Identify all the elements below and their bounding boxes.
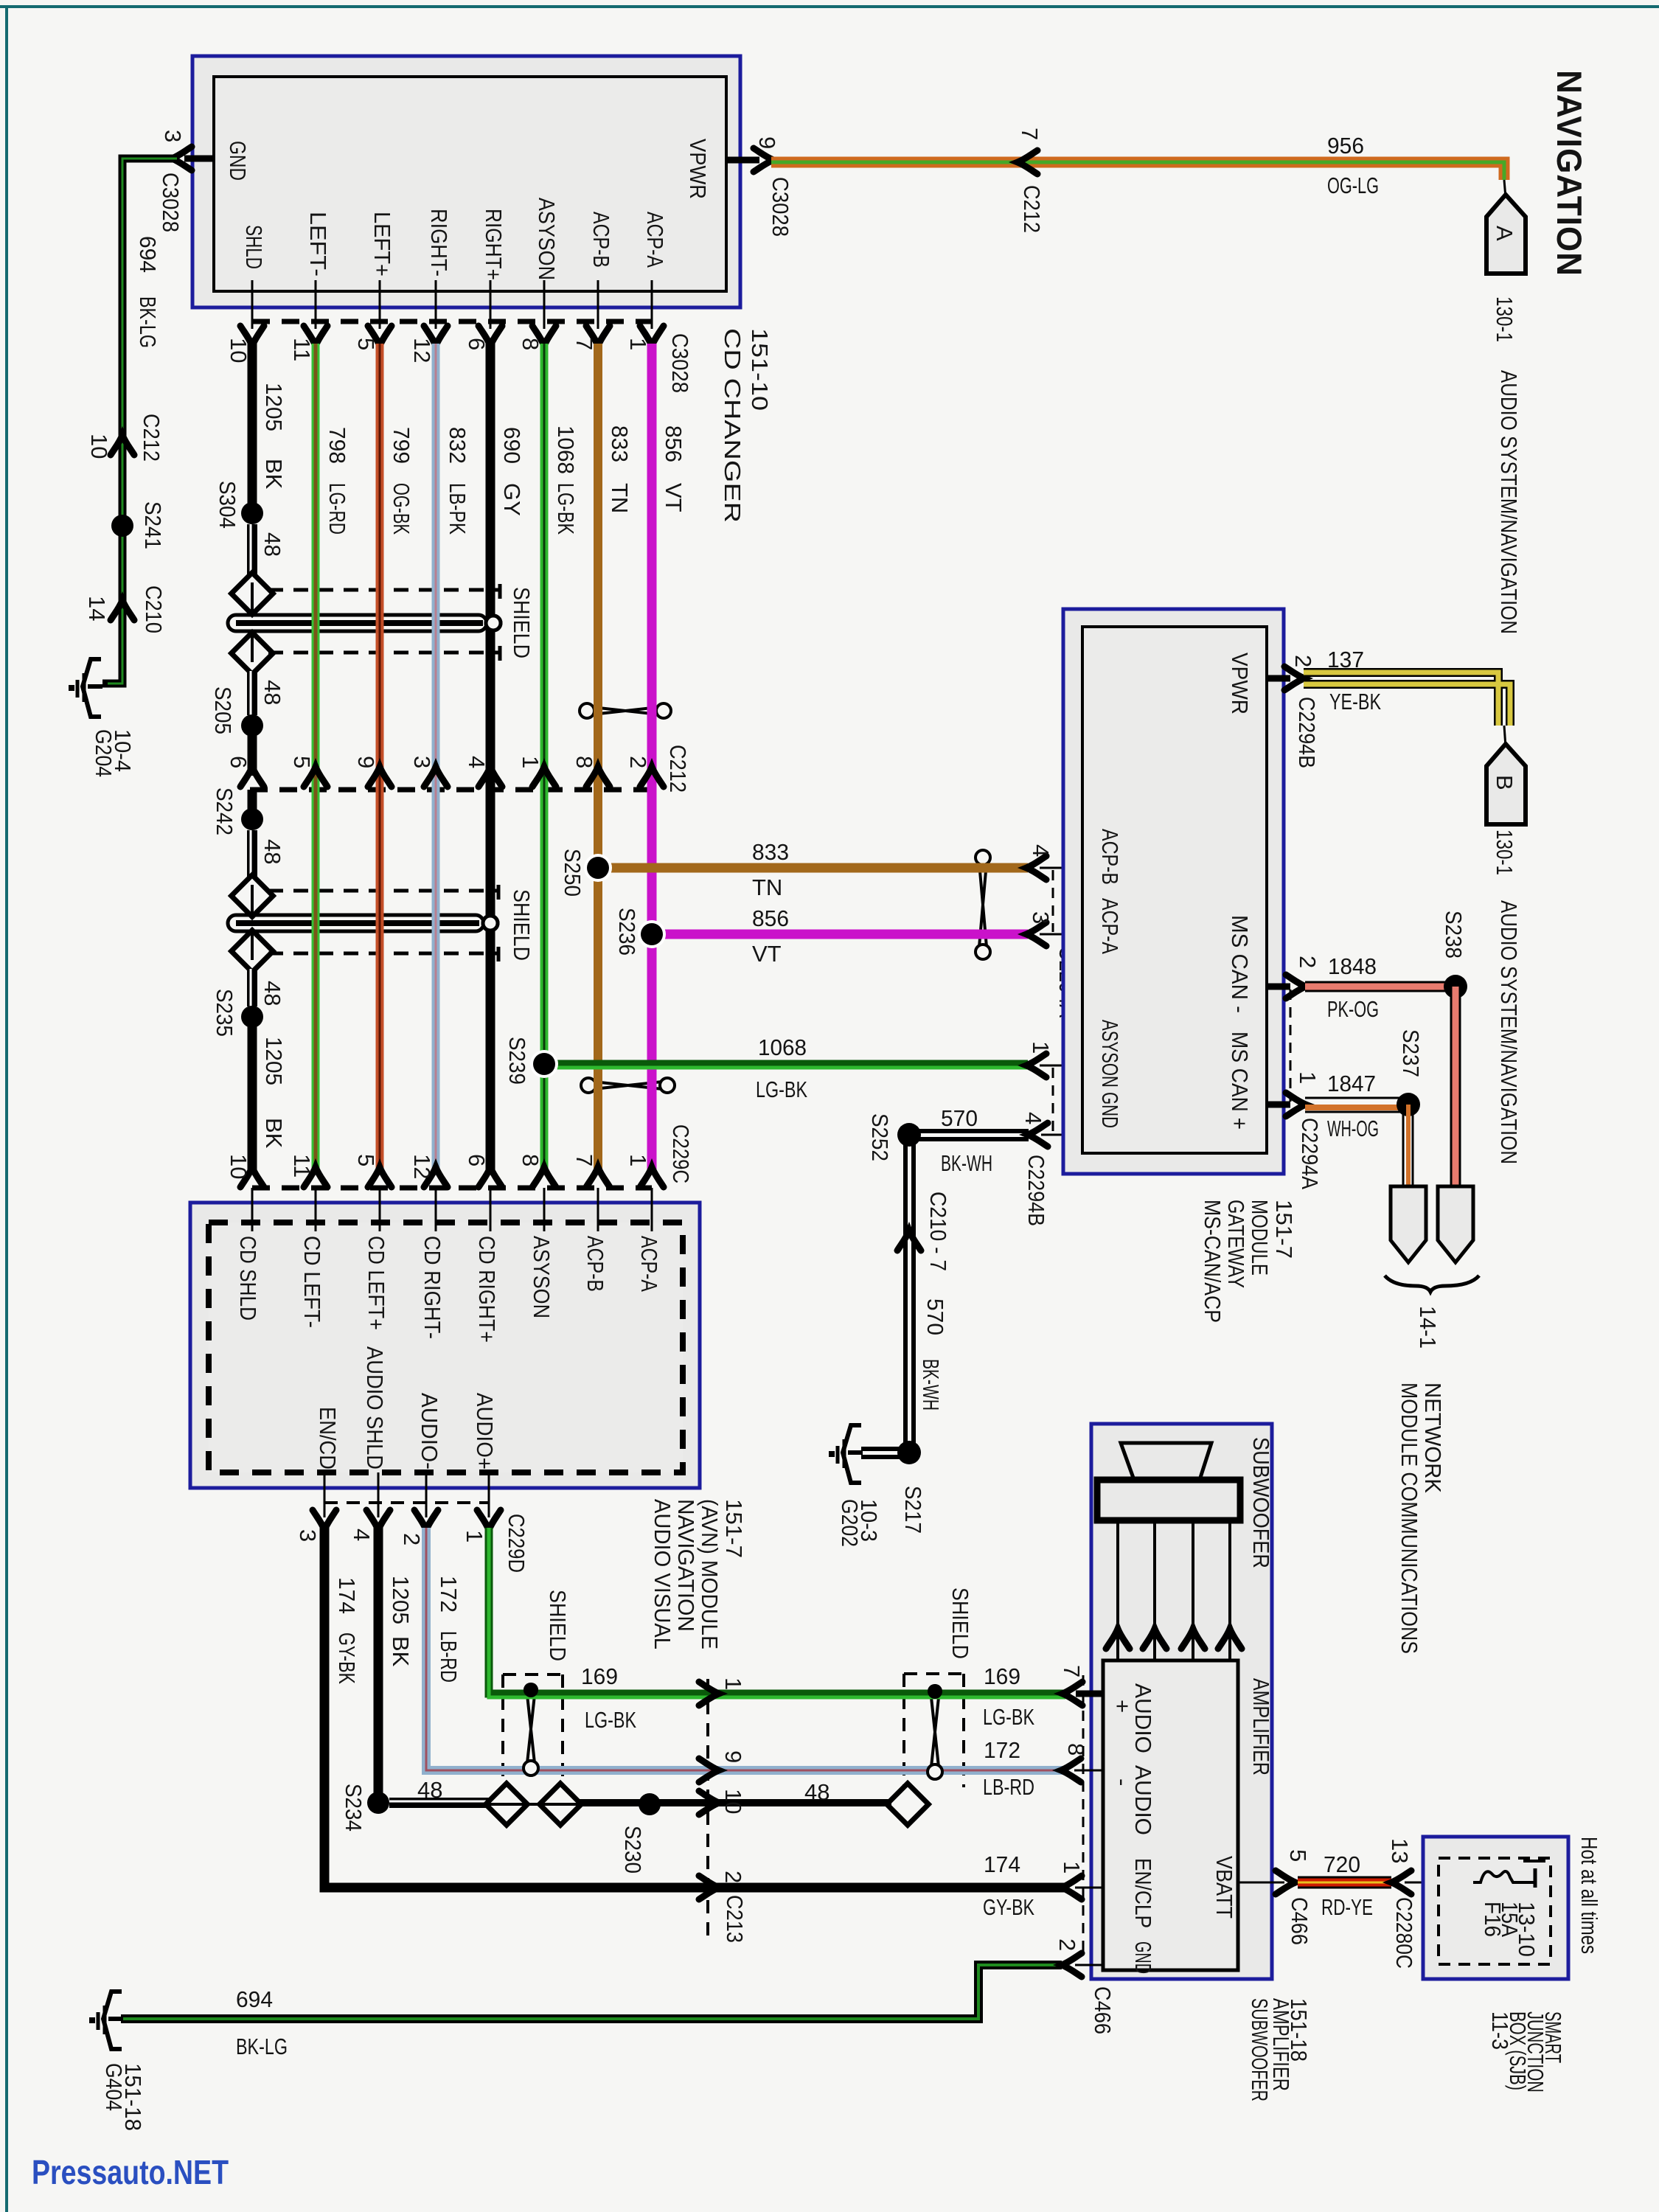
svg-text:1205: 1205 — [261, 383, 287, 431]
svg-text:LG-BK: LG-BK — [585, 1707, 636, 1733]
C3028 arrows row — [240, 326, 264, 346]
C213 arrow on 169 — [699, 1682, 719, 1705]
svg-text:AUDIO+: AUDIO+ — [472, 1393, 498, 1470]
wire 137 YE-BK to connector B — [1304, 672, 1498, 726]
svg-text:1: 1 — [625, 1154, 651, 1166]
wire 1848 PK-OG to S238 — [1305, 981, 1455, 992]
svg-text:AUDIO SHLD: AUDIO SHLD — [362, 1346, 388, 1470]
connector A symbol — [1486, 195, 1526, 274]
connector B lead line — [1504, 726, 1506, 747]
svg-text:MS CAN +: MS CAN + — [1227, 1032, 1253, 1130]
svg-text:13: 13 — [1387, 1838, 1413, 1863]
svg-text:169: 169 — [581, 1663, 618, 1689]
svg-text:172: 172 — [984, 1737, 1020, 1763]
shield L capsule top dot — [524, 1683, 538, 1697]
AVN module dashed box — [209, 1222, 683, 1472]
svg-text:NAVIGATION: NAVIGATION — [673, 1499, 699, 1632]
svg-text:ASYSON: ASYSON — [534, 198, 560, 280]
wire 956 OG-LG to connector A — [771, 162, 1504, 180]
svg-text:CD SHLD: CD SHLD — [235, 1236, 261, 1321]
wire 174 GY-BK EN/CD to amplifier — [324, 1528, 1065, 1888]
amp AUDIO+ stub — [1076, 1691, 1103, 1697]
svg-text:BK-WH: BK-WH — [918, 1359, 944, 1411]
svg-text:11: 11 — [289, 338, 315, 361]
svg-text:7: 7 — [1059, 1665, 1085, 1677]
ACP-B stub into gateway — [1040, 867, 1082, 869]
svg-text:151-18: 151-18 — [1286, 1998, 1312, 2062]
svg-text:TN: TN — [752, 874, 782, 900]
svg-text:CD LEFT+: CD LEFT+ — [364, 1236, 389, 1330]
ACP-A stub into gateway — [1040, 933, 1082, 936]
svg-text:48: 48 — [417, 1777, 442, 1803]
svg-text:LB-RD: LB-RD — [983, 1774, 1034, 1800]
svg-text:798: 798 — [324, 427, 350, 464]
wire 690 GY full run — [486, 344, 495, 1174]
svg-text:832: 832 — [445, 427, 470, 464]
svg-text:LG-RD: LG-RD — [324, 483, 350, 535]
drain wire 48 diamond to S230 — [577, 1799, 650, 1806]
svg-text:151-7: 151-7 — [721, 1499, 747, 1558]
svg-text:690: 690 — [499, 427, 525, 464]
shield R capsule top dot — [928, 1684, 942, 1699]
subwoofer speaker magnet — [1097, 1480, 1240, 1520]
svg-text:LEFT+: LEFT+ — [369, 212, 395, 276]
svg-text:MS CAN -: MS CAN - — [1227, 915, 1253, 1013]
svg-text:MS-CAN/ACP: MS-CAN/ACP — [1200, 1200, 1225, 1323]
svg-text:C212: C212 — [139, 414, 164, 462]
svg-text:1847: 1847 — [1327, 1071, 1376, 1096]
svg-text:SHIELD: SHIELD — [509, 889, 535, 961]
svg-text:7: 7 — [1017, 128, 1043, 140]
GND pin arrow C3028-3 — [172, 147, 192, 170]
svg-text:EN/CD: EN/CD — [315, 1407, 341, 1470]
wire 1205 BK segment C3028 to S304 — [248, 344, 257, 513]
svg-text:12: 12 — [409, 1154, 435, 1179]
svg-text:ASYSON: ASYSON — [529, 1236, 554, 1318]
svg-text:GATEWAY: GATEWAY — [1223, 1200, 1249, 1288]
svg-text:S252: S252 — [867, 1113, 893, 1161]
svg-text:S241: S241 — [140, 501, 166, 549]
svg-text:130-1: 130-1 — [1492, 829, 1517, 875]
subwoofer amplifier outer box — [1091, 1424, 1272, 1979]
svg-text:SHIELD: SHIELD — [509, 587, 535, 658]
amp VBATT stub — [1238, 1882, 1284, 1884]
splice S236 — [638, 920, 666, 948]
svg-text:3: 3 — [409, 756, 435, 768]
wire 1068 LG-BK full run — [540, 344, 549, 1174]
connector C212 dashed line — [250, 787, 662, 793]
speaker lead 1 — [1116, 1520, 1119, 1660]
svg-text:13-10: 13-10 — [1514, 1902, 1540, 1957]
VPWR pin arrow C3028-9 — [754, 148, 773, 172]
svg-text:RD-YE: RD-YE — [1321, 1894, 1373, 1920]
svg-text:CD RIGHT-: CD RIGHT- — [420, 1236, 445, 1339]
splice S235 — [241, 1006, 263, 1028]
svg-text:12: 12 — [409, 338, 435, 363]
svg-text:S217: S217 — [900, 1486, 926, 1534]
shield 1 drain capsule — [228, 615, 501, 631]
svg-text:8: 8 — [518, 1154, 543, 1166]
shield R diamond — [887, 1784, 929, 1826]
drain wire 48 shield 2 to S235 — [247, 969, 257, 1006]
connector C3028 dashed line — [252, 319, 652, 324]
svg-text:1068: 1068 — [553, 425, 579, 474]
svg-text:S239: S239 — [504, 1037, 530, 1085]
svg-text:48: 48 — [260, 839, 285, 864]
wire 1847 WH-OG to S237 — [1305, 1097, 1408, 1099]
svg-text:TN: TN — [607, 483, 633, 513]
svg-text:48: 48 — [804, 1779, 829, 1805]
splice S241 — [111, 515, 133, 537]
wire 1848 PK-OG vertical to network pin — [1450, 987, 1461, 1186]
ground G204 symbol — [69, 659, 102, 717]
subwoofer speaker cone — [1121, 1443, 1211, 1480]
AVN bottom pin stubs — [324, 1472, 489, 1517]
C213 arrow on drain 48 — [699, 1791, 719, 1815]
drain wire 48 S234 to diamond — [389, 1798, 490, 1808]
MS CAN - pin stub — [1267, 984, 1290, 990]
wire 172 LB-RD AUDIO- to amplifier — [426, 1528, 1064, 1770]
speaker lead 4 — [1228, 1520, 1231, 1660]
svg-text:CD RIGHT+: CD RIGHT+ — [474, 1236, 500, 1343]
connector C212 pin 10 arrow on ground wire — [111, 435, 134, 455]
svg-text:VT: VT — [752, 941, 782, 967]
gateway module inner box — [1082, 627, 1267, 1153]
wire 856 VT full run — [647, 344, 657, 1174]
wire BK segment C212 to S242 — [248, 790, 257, 819]
svg-text:OG-BK: OG-BK — [389, 483, 414, 535]
amp EN/CLP stub — [1075, 1887, 1103, 1889]
svg-text:3: 3 — [295, 1529, 321, 1542]
svg-text:GY: GY — [499, 483, 525, 516]
C229D dashed line — [324, 1501, 489, 1504]
svg-text:BK: BK — [261, 1118, 287, 1149]
svg-text:BK: BK — [388, 1636, 414, 1667]
svg-text:2: 2 — [1054, 1938, 1080, 1951]
svg-text:11-3: 11-3 — [1487, 2011, 1513, 2050]
svg-text:C466: C466 — [1287, 1897, 1312, 1945]
ground G202 symbol — [829, 1425, 863, 1483]
svg-text:PK-OG: PK-OG — [1327, 996, 1379, 1022]
svg-text:5: 5 — [353, 338, 379, 350]
amp GND stub — [1075, 1964, 1103, 1966]
gateway module outer box — [1063, 609, 1284, 1174]
speaker lead arrows — [1106, 1629, 1130, 1649]
brace under network pins — [1385, 1276, 1479, 1292]
svg-text:2: 2 — [720, 1871, 746, 1883]
svg-text:2: 2 — [399, 1533, 425, 1545]
svg-text:10: 10 — [86, 434, 112, 459]
svg-text:9: 9 — [720, 1750, 746, 1763]
wire 798 LG-RD full run — [312, 344, 320, 1174]
svg-text:GND: GND — [1130, 1941, 1156, 1974]
network pin symbol right — [1438, 1186, 1473, 1262]
fuse F16 element — [1473, 1871, 1535, 1882]
C213 arrow on 174 — [699, 1876, 719, 1899]
svg-text:799: 799 — [389, 427, 414, 464]
MS CAN + pin stub — [1267, 1102, 1290, 1108]
svg-text:AUDIO VISUAL: AUDIO VISUAL — [650, 1499, 675, 1649]
connector B symbol — [1486, 744, 1526, 824]
svg-text:S236: S236 — [614, 908, 640, 956]
ACP-A arrow at C2294A — [1026, 922, 1046, 946]
svg-text:1: 1 — [720, 1677, 746, 1690]
scan border top — [0, 5, 1659, 8]
splice S237 — [1397, 1093, 1420, 1116]
svg-text:7: 7 — [571, 1154, 597, 1166]
svg-text:S304: S304 — [215, 481, 240, 529]
svg-text:C210 - 7: C210 - 7 — [925, 1192, 951, 1271]
svg-text:EN/CLP: EN/CLP — [1130, 1858, 1156, 1928]
C213 arrow on 172 — [699, 1759, 719, 1782]
shield L dashed outline — [503, 1674, 563, 1788]
ACP-B arrow at C2294A — [1026, 856, 1046, 880]
svg-text:C213: C213 — [722, 1895, 748, 1943]
svg-text:SHLD: SHLD — [241, 225, 267, 269]
svg-text:C3028: C3028 — [768, 177, 793, 237]
ground G404 symbol — [89, 1992, 123, 2049]
svg-text:C2294B: C2294B — [1294, 697, 1320, 768]
svg-text:151-7: 151-7 — [1271, 1200, 1297, 1259]
svg-text:A: A — [1492, 226, 1517, 241]
connector C210 pin 7 arrow — [897, 1231, 921, 1251]
svg-text:VBATT: VBATT — [1211, 1856, 1237, 1919]
splice S252 — [897, 1123, 921, 1147]
svg-text:720: 720 — [1324, 1851, 1360, 1877]
svg-text:4: 4 — [1020, 1112, 1046, 1124]
svg-text:AUDIO SYSTEM/NAVIGATION: AUDIO SYSTEM/NAVIGATION — [1496, 900, 1522, 1164]
svg-text:833: 833 — [752, 839, 789, 865]
amp AUDIO+ arrow — [1062, 1682, 1082, 1705]
svg-text:S238: S238 — [1441, 911, 1467, 959]
splice S234 — [367, 1792, 389, 1814]
connector A lead line — [1504, 180, 1506, 198]
svg-text:174: 174 — [984, 1851, 1020, 1877]
shield 2 capsule end circle — [483, 916, 498, 931]
C229D arrows row — [313, 1510, 336, 1530]
svg-text:1205: 1205 — [388, 1576, 414, 1624]
svg-text:1: 1 — [518, 756, 543, 768]
splice S304 — [241, 502, 263, 524]
svg-text:1: 1 — [462, 1530, 487, 1543]
smart junction box outer — [1423, 1837, 1568, 1979]
drain wire 48 S230 through C213 to shield R — [650, 1799, 891, 1806]
svg-text:AUDIO: AUDIO — [1130, 1765, 1156, 1835]
AVN module outer box — [190, 1203, 700, 1488]
wire 1205 BK AUDIO SHLD to S234 — [374, 1528, 383, 1803]
svg-text:ACP-A: ACP-A — [636, 1236, 662, 1292]
svg-text:Hot at all times: Hot at all times — [1576, 1837, 1602, 1954]
svg-text:SHIELD: SHIELD — [545, 1590, 571, 1661]
twisted pair symbol TN-VT above C212 — [580, 703, 671, 718]
twisted pair symbol on ACP pair at gateway — [975, 850, 990, 959]
svg-text:C229D: C229D — [504, 1514, 529, 1573]
shield 2 dashed outline — [268, 885, 498, 961]
svg-text:(AVN) MODULE: (AVN) MODULE — [697, 1499, 723, 1649]
svg-text:C212: C212 — [1019, 185, 1045, 233]
svg-text:48: 48 — [260, 532, 285, 557]
GND stub into gateway — [1041, 1134, 1082, 1136]
svg-text:RIGHT+: RIGHT+ — [481, 209, 507, 280]
amp connector dashed boundary — [1082, 1675, 1085, 1958]
svg-text:BK: BK — [261, 459, 287, 490]
C229C arrows row — [240, 1167, 264, 1187]
svg-text:C3028: C3028 — [667, 333, 693, 393]
svg-text:5: 5 — [353, 1154, 379, 1166]
wire BK segment S205 to C212 — [248, 726, 257, 776]
C212 arrows row — [240, 767, 264, 787]
svg-text:BK-WH: BK-WH — [941, 1150, 992, 1176]
svg-text:570: 570 — [922, 1298, 948, 1335]
SJB lead wire — [1405, 1882, 1473, 1884]
svg-text:856: 856 — [752, 905, 789, 931]
svg-text:14-1: 14-1 — [1415, 1306, 1441, 1349]
svg-text:VT: VT — [661, 483, 686, 512]
svg-text:856: 856 — [661, 425, 686, 462]
svg-text:S234: S234 — [341, 1784, 366, 1832]
wire 1205 BK segment S235 to C229C — [248, 1017, 257, 1174]
svg-text:1: 1 — [1028, 1041, 1054, 1054]
shield 1 capsule end circle — [486, 616, 501, 630]
svg-text:10: 10 — [226, 1154, 251, 1179]
svg-text:YE-BK: YE-BK — [1329, 689, 1381, 714]
svg-text:AUDIO SYSTEM/NAVIGATION: AUDIO SYSTEM/NAVIGATION — [1496, 370, 1522, 634]
svg-text:GY-BK: GY-BK — [334, 1632, 360, 1684]
shield 1 diamond lower — [232, 633, 274, 675]
GND pin stub wire — [184, 156, 214, 162]
svg-text:172: 172 — [436, 1576, 462, 1613]
svg-text:151-10: 151-10 — [747, 328, 773, 411]
svg-text:SUBWOOFER: SUBWOOFER — [1248, 1437, 1274, 1568]
svg-text:MODULE COMMUNICATIONS: MODULE COMMUNICATIONS — [1397, 1382, 1422, 1654]
shield R dashed outline — [904, 1674, 964, 1787]
splice S242 — [241, 808, 263, 830]
svg-text:ASYSON GND: ASYSON GND — [1097, 1020, 1123, 1128]
svg-text:AUDIO-: AUDIO- — [417, 1393, 442, 1470]
CD changer head unit outer box — [192, 56, 740, 307]
svg-text:3: 3 — [160, 130, 186, 142]
shield L twisted capsule — [524, 1683, 538, 1775]
wire 1847 WH-OG vertical to network pin — [1402, 1105, 1405, 1186]
svg-text:10-4: 10-4 — [110, 729, 136, 772]
svg-text:130-1: 130-1 — [1492, 296, 1517, 342]
svg-text:8: 8 — [571, 756, 597, 768]
connector C210 pin 14 arrow on ground wire — [111, 600, 134, 620]
svg-text:48: 48 — [260, 680, 285, 705]
svg-text:8: 8 — [1063, 1743, 1089, 1756]
amp VBATT arrow C466-5 — [1276, 1871, 1295, 1894]
svg-text:4: 4 — [464, 756, 490, 768]
wire 694 BK-LG vertical run from GND — [102, 159, 177, 684]
shield 1 dashed outline — [268, 584, 500, 661]
shield R twisted capsule — [928, 1684, 942, 1779]
svg-text:5: 5 — [289, 756, 315, 768]
amplifier inner box — [1103, 1660, 1238, 1970]
svg-text:LB-RD: LB-RD — [436, 1631, 462, 1683]
svg-text:VPWR: VPWR — [1227, 653, 1253, 714]
svg-text:LB-PK: LB-PK — [445, 483, 470, 535]
drain bus through bottom diamonds — [490, 1803, 577, 1806]
SJB arrow C2280C-13 — [1391, 1871, 1411, 1894]
svg-text:C229C: C229C — [668, 1124, 694, 1183]
svg-text:4: 4 — [1028, 844, 1054, 857]
svg-text:151-18: 151-18 — [120, 2063, 146, 2131]
splice S239 — [530, 1050, 558, 1078]
svg-text:BK-LG: BK-LG — [135, 296, 161, 348]
network pin symbol left — [1391, 1186, 1426, 1262]
wire 570 BK-WH vertical S252 to S217 — [903, 1135, 908, 1453]
wire 169 LG-BK AUDIO+ to amplifier — [489, 1528, 1065, 1694]
wire 720 RD-YE — [1298, 1877, 1391, 1889]
splice S238 — [1444, 975, 1467, 998]
svg-text:6: 6 — [226, 756, 251, 768]
svg-text:Pressauto.NET: Pressauto.NET — [32, 2153, 229, 2191]
svg-text:S250: S250 — [560, 849, 585, 897]
svg-text:AUDIO: AUDIO — [1130, 1683, 1156, 1753]
svg-text:14: 14 — [84, 596, 110, 621]
splice S217 — [897, 1441, 921, 1464]
svg-text:1068: 1068 — [758, 1034, 807, 1060]
splice S205 — [241, 714, 263, 737]
svg-text:-: - — [1110, 1778, 1135, 1786]
svg-text:1: 1 — [1295, 1071, 1321, 1084]
svg-text:S237: S237 — [1398, 1029, 1424, 1077]
svg-text:S230: S230 — [620, 1826, 646, 1874]
svg-text:10-3: 10-3 — [856, 1499, 882, 1542]
shield 2 diamond upper — [232, 875, 274, 917]
MS CAN + arrow C2294A-1 — [1286, 1093, 1306, 1116]
svg-text:ACP-A: ACP-A — [642, 212, 668, 268]
splice S230 — [639, 1793, 661, 1815]
CD changer head unit inner box — [214, 77, 726, 291]
wire 570 S217 to ground G202 — [861, 1447, 909, 1451]
svg-text:C466: C466 — [1090, 1986, 1116, 2034]
svg-text:694: 694 — [236, 1986, 273, 2012]
svg-text:NAVIGATION: NAVIGATION — [1550, 70, 1589, 276]
VPWR pin stub wire — [726, 157, 759, 164]
svg-text:WH-OG: WH-OG — [1327, 1116, 1379, 1141]
svg-text:174: 174 — [334, 1577, 360, 1614]
speaker lead 3 — [1192, 1520, 1194, 1660]
svg-text:S235: S235 — [212, 989, 237, 1037]
svg-text:6: 6 — [464, 1154, 490, 1166]
speaker lead 2 — [1153, 1520, 1156, 1660]
fuse top tick — [1523, 1860, 1545, 1863]
ASYSON GND arrow at C2294B — [1026, 1054, 1046, 1077]
twisted pair symbol TN-VT above C229C — [581, 1078, 675, 1093]
svg-text:C2280C: C2280C — [1391, 1897, 1417, 1969]
svg-text:LG-BK: LG-BK — [756, 1077, 807, 1102]
svg-text:48: 48 — [260, 981, 285, 1006]
head unit pin stubs to C3028 — [252, 280, 652, 329]
svg-text:ACP-B: ACP-B — [1097, 829, 1123, 885]
C2294B dashed boundary — [1052, 1068, 1054, 1133]
svg-text:B: B — [1492, 775, 1517, 790]
wire 799 OG-BK full run — [376, 344, 384, 1174]
smart junction box dashed box — [1439, 1858, 1551, 1964]
svg-text:CD LEFT-: CD LEFT- — [299, 1236, 325, 1328]
svg-text:LG-BK: LG-BK — [553, 483, 579, 535]
svg-text:956: 956 — [1327, 133, 1364, 159]
svg-text:9: 9 — [754, 136, 780, 149]
svg-text:137: 137 — [1327, 647, 1364, 672]
wire 833 TN branch S250 to gateway ACP-B — [598, 863, 1028, 873]
svg-text:9: 9 — [353, 756, 379, 768]
drain bus through shield 2 — [251, 885, 254, 960]
svg-text:BK-LG: BK-LG — [236, 2034, 288, 2059]
svg-text:S205: S205 — [210, 686, 236, 734]
svg-text:694: 694 — [135, 236, 161, 273]
